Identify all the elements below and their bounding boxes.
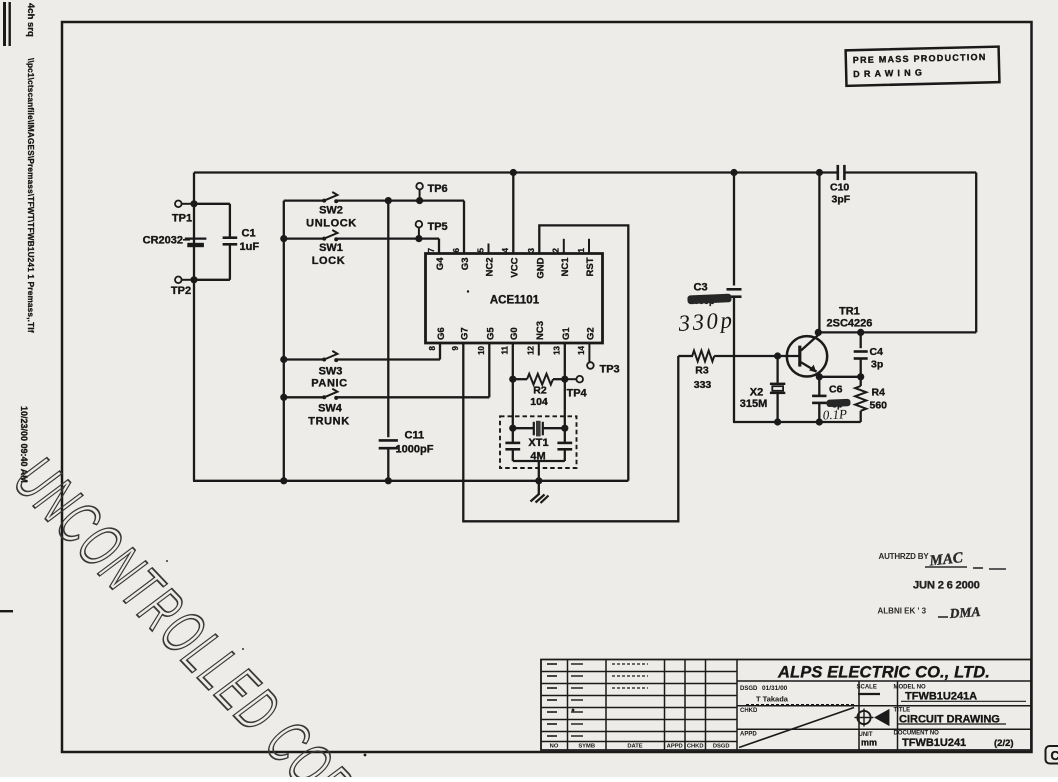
pre-mass production drawing stamp box xyxy=(846,47,1000,86)
wire IC pin G1 xyxy=(564,343,566,428)
test point TP6 xyxy=(419,189,421,200)
title block company name xyxy=(737,680,1031,682)
svg-text:4: 4 xyxy=(501,248,510,253)
svg-text:NC3: NC3 xyxy=(535,321,546,340)
svg-text:11: 11 xyxy=(501,345,510,354)
resistor R2 (104) xyxy=(513,378,527,380)
svg-text:TP4: TP4 xyxy=(567,388,588,400)
wire left vertical (battery branch) xyxy=(193,173,195,481)
wire right loop vertical xyxy=(975,173,977,333)
svg-text:CHKD: CHKD xyxy=(687,744,704,750)
svg-text:T Takada: T Takada xyxy=(756,695,789,704)
capacitor C10 (3pF) in top rail xyxy=(836,165,839,180)
wire SW1 row to IC pin G4 xyxy=(438,239,440,254)
svg-text:X2: X2 xyxy=(750,387,763,399)
UNCONTROLLED COPY watermark xyxy=(1,445,386,782)
wire XT1 bottom to ground rail xyxy=(513,460,565,462)
svg-text:TP1: TP1 xyxy=(172,213,192,225)
svg-text:NC2: NC2 xyxy=(485,258,496,277)
third-angle projection symbol xyxy=(857,711,870,724)
svg-text:DATE: DATE xyxy=(627,744,642,750)
svg-text:ALBNI EK ' 3: ALBNI EK ' 3 xyxy=(878,607,927,616)
wire GND pin loop over IC xyxy=(539,225,628,480)
svg-text:CHKD: CHKD xyxy=(740,708,758,714)
svg-text:8: 8 xyxy=(428,345,437,350)
svg-text:PANIC: PANIC xyxy=(311,378,347,390)
svg-text:DOCUMENT NO: DOCUMENT NO xyxy=(894,731,940,737)
svg-text:G1: G1 xyxy=(561,327,572,340)
svg-text:10: 10 xyxy=(477,345,486,354)
svg-text:DRAWING: DRAWING xyxy=(853,67,926,79)
junction dots on ground rail xyxy=(280,477,287,484)
scan header bars top-left xyxy=(3,2,6,46)
svg-text:3pF: 3pF xyxy=(832,194,851,206)
svg-text:ALPS ELECTRIC CO., LTD.: ALPS ELECTRIC CO., LTD. xyxy=(777,664,990,682)
svg-text:C4: C4 xyxy=(870,346,884,358)
svg-text:3: 3 xyxy=(527,248,536,253)
revision table xyxy=(541,671,737,673)
svg-text:1: 1 xyxy=(577,248,586,253)
svg-text:4M: 4M xyxy=(530,451,545,463)
capacitor C3 (330p) xyxy=(733,173,735,286)
svg-text:RST: RST xyxy=(585,257,596,276)
svg-text:9: 9 xyxy=(451,345,460,350)
svg-text:G4: G4 xyxy=(435,257,446,270)
svg-text:C6: C6 xyxy=(829,384,843,396)
svg-text:560: 560 xyxy=(870,400,888,412)
svg-text:315M: 315M xyxy=(740,398,768,410)
svg-text:333: 333 xyxy=(694,379,712,391)
IC pin stub NC2 xyxy=(488,244,490,254)
svg-text:SYMB: SYMB xyxy=(578,744,595,750)
svg-text:VCC: VCC xyxy=(510,257,521,277)
svg-text:104: 104 xyxy=(530,396,548,408)
wire collector vertical to rail xyxy=(818,173,820,333)
test point TP5 xyxy=(418,227,420,238)
switch SW2 (UNLOCK) xyxy=(284,199,324,201)
svg-text:C11: C11 xyxy=(405,430,425,442)
scan speck xyxy=(572,709,575,712)
ground symbol xyxy=(538,481,540,495)
svg-text:01/31/00: 01/31/00 xyxy=(762,685,788,692)
svg-text:G3: G3 xyxy=(460,258,471,271)
battery CR2032 xyxy=(185,238,207,240)
wire emitter row xyxy=(816,376,861,378)
crystal XT1 symbol xyxy=(513,427,534,429)
svg-text:TP3: TP3 xyxy=(600,364,620,376)
svg-text:SCALE: SCALE xyxy=(857,685,877,691)
svg-text:6: 6 xyxy=(452,248,461,253)
wire top supply rail xyxy=(194,171,838,173)
capacitor C4 (3p) xyxy=(860,332,862,348)
test point TP2 xyxy=(182,279,195,281)
svg-text:G7: G7 xyxy=(460,327,471,340)
wire IC pin G7 lower loop to R3 xyxy=(463,343,678,521)
switch SW1 (LOCK) xyxy=(284,237,324,239)
svg-text:12: 12 xyxy=(527,345,536,354)
svg-text:GND: GND xyxy=(536,257,547,278)
resistor R3 (333) xyxy=(678,355,693,357)
svg-text:13: 13 xyxy=(553,345,562,354)
svg-text:\\pc1\ctscanfile\IMAGES\Premas: \\pc1\ctscanfile\IMAGES\Premass\TFWT\TFW… xyxy=(26,58,35,333)
svg-text:SW4: SW4 xyxy=(318,403,343,415)
svg-text:SW2: SW2 xyxy=(319,205,343,217)
svg-text:DSGD: DSGD xyxy=(740,686,758,692)
svg-text:0.1P: 0.1P xyxy=(822,406,847,422)
svg-text:4ch srq: 4ch srq xyxy=(25,3,36,37)
svg-text:C1: C1 xyxy=(242,228,256,240)
svg-text:R4: R4 xyxy=(872,387,886,399)
svg-text:3p: 3p xyxy=(871,359,883,371)
resistor R4 (560) xyxy=(860,377,862,386)
svg-text:TR1: TR1 xyxy=(839,306,860,318)
title block row lines xyxy=(737,705,1031,707)
IC pin stub RST xyxy=(588,239,590,254)
svg-text:G6: G6 xyxy=(436,327,447,340)
svg-text:AUTHRZD BY: AUTHRZD BY xyxy=(879,552,930,561)
svg-text:C10: C10 xyxy=(830,182,849,194)
wire bottom ground rail xyxy=(193,480,628,482)
svg-text:C: C xyxy=(1051,749,1058,763)
wire collector row to right loop xyxy=(818,331,976,333)
svg-text:DSGD: DSGD xyxy=(713,744,730,750)
bottom-right cut-off C stamp xyxy=(1046,746,1058,764)
svg-text:2SC4226: 2SC4226 xyxy=(827,318,873,330)
switch SW4 (TRUNK) xyxy=(284,396,324,398)
svg-text:APPD: APPD xyxy=(667,744,683,750)
wire IC pin G2 to TP3 xyxy=(588,343,590,362)
svg-text:SW1: SW1 xyxy=(319,242,343,254)
svg-text:SW3: SW3 xyxy=(319,366,343,378)
capacitor XT1 right load cap xyxy=(564,428,566,443)
svg-text:TP5: TP5 xyxy=(428,221,448,233)
IC pin stub NC3 xyxy=(538,343,540,356)
svg-text:330p: 330p xyxy=(677,307,736,336)
svg-text:CR2032: CR2032 xyxy=(143,235,183,247)
svg-text:XT1: XT1 xyxy=(528,437,548,449)
svg-text:R3: R3 xyxy=(695,365,709,377)
svg-text:DMA: DMA xyxy=(948,604,981,621)
test point TP3 xyxy=(587,362,594,369)
svg-text:NO: NO xyxy=(550,744,559,750)
svg-text:5: 5 xyxy=(476,248,485,253)
svg-text:1uF: 1uF xyxy=(240,241,260,253)
svg-text:TFWB1U241: TFWB1U241 xyxy=(902,737,966,749)
svg-text:(2/2): (2/2) xyxy=(994,738,1014,749)
wire SW2 row to IC pin G3 xyxy=(463,201,465,254)
wire IC pin G0 xyxy=(512,343,514,428)
svg-text:ACE1101: ACE1101 xyxy=(490,295,540,307)
switch SW3 (PANIC) xyxy=(284,358,324,360)
svg-text:APPD: APPD xyxy=(740,732,757,738)
IC pin stub NC1 xyxy=(563,239,565,254)
test point TP4 xyxy=(565,378,577,380)
svg-text:mm: mm xyxy=(861,738,877,748)
wire oscillator bottom row xyxy=(733,421,861,423)
svg-text:NC1: NC1 xyxy=(560,257,571,277)
svg-text:G0: G0 xyxy=(509,327,520,340)
svg-text:G2: G2 xyxy=(586,327,597,340)
svg-text:R2: R2 xyxy=(533,385,547,397)
IC pin stub VCC to rail xyxy=(512,173,514,254)
svg-text:C3: C3 xyxy=(694,282,708,294)
svg-text:LOCK: LOCK xyxy=(312,255,346,267)
left margin dash mark xyxy=(0,610,13,612)
svg-text:UNLOCK: UNLOCK xyxy=(306,218,357,230)
wire SW3 row to IC pin G6 xyxy=(439,343,441,360)
capacitor C1 xyxy=(194,203,230,205)
crystal XT1 (4M) dashed enclosure xyxy=(500,416,577,468)
capacitor C11 xyxy=(387,201,389,438)
transistor TR1 2SC4226 xyxy=(787,336,827,376)
capacitor C6 xyxy=(818,377,820,395)
capacitor XT1 left load cap xyxy=(512,428,514,443)
test point TP1 xyxy=(182,203,195,205)
svg-text:TP6: TP6 xyxy=(428,183,448,195)
svg-text:14: 14 xyxy=(577,345,586,354)
svg-text:G5: G5 xyxy=(486,327,497,340)
title block outline xyxy=(541,660,1031,751)
resonator X2 (315M) xyxy=(776,356,778,383)
svg-text:TRUNK: TRUNK xyxy=(308,416,350,428)
wire SW4 row to IC pin G5 xyxy=(488,343,490,397)
svg-text:TP2: TP2 xyxy=(171,285,191,297)
svg-text:7: 7 xyxy=(427,248,436,253)
svg-text:1000pF: 1000pF xyxy=(396,444,434,456)
wire switch ladder vertical xyxy=(283,201,285,481)
op-amp/MCU IC ACE1101 xyxy=(426,254,603,344)
svg-text:2: 2 xyxy=(552,248,561,253)
svg-text:JUN 2 6 2000: JUN 2 6 2000 xyxy=(913,580,980,592)
